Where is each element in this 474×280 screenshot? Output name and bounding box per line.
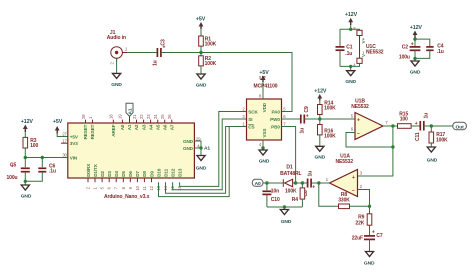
svg-text:A4: A4	[148, 124, 153, 130]
wire detector bottom rail	[267, 206, 303, 208]
wire U1C bottom rail	[340, 63, 360, 66]
ground under J1	[111, 73, 122, 87]
wire U1B feedback pin6	[346, 133, 393, 148]
resistor R3 100	[23, 137, 38, 149]
svg-text:D9: D9	[149, 171, 154, 177]
wire A0 to D1 cathode	[263, 182, 283, 184]
ground under R17	[427, 147, 438, 163]
svg-text:A0: A0	[255, 181, 261, 187]
wire C3 to divider node	[161, 52, 201, 54]
wire C1 top stem	[339, 29, 341, 46]
wire node to C5	[24, 158, 26, 168]
+12V flag left column	[21, 119, 34, 132]
wire C2/C4 bottom rail	[415, 50, 430, 58]
connector J1 audio jack	[107, 30, 128, 65]
flag A1 above Arduino	[126, 103, 133, 123]
svg-text:C2: C2	[402, 44, 409, 50]
wire C10 stem	[266, 183, 268, 190]
svg-text:25: 25	[160, 114, 165, 119]
node divider junction	[199, 51, 202, 54]
+12V flag above U1C	[345, 12, 358, 25]
svg-text:+5V: +5V	[259, 70, 269, 76]
capacitor C11 1u	[415, 113, 430, 141]
node feedback junction	[391, 145, 394, 148]
resistor R17 100K	[429, 132, 448, 144]
wire D1 anode to C8	[293, 182, 307, 184]
svg-text:GND: GND	[315, 155, 326, 161]
wire C7 to ground	[369, 239, 371, 251]
svg-text:100K: 100K	[436, 137, 448, 143]
svg-text:A7: A7	[170, 124, 175, 130]
svg-text:+12V: +12V	[410, 25, 423, 31]
Arduino bottom pin numbers rotated	[86, 185, 183, 190]
resistor R14 100K	[318, 100, 337, 114]
capacitor C5 100u	[7, 163, 30, 182]
svg-text:100K: 100K	[324, 134, 336, 140]
diode D1 BAT48RL	[280, 164, 301, 187]
svg-text:D2: D2	[100, 171, 105, 177]
wire R4 stems	[301, 183, 303, 188]
Arduino right pin numbers	[196, 136, 201, 148]
port Out	[453, 122, 467, 130]
svg-text:−: −	[352, 188, 355, 194]
svg-text:+: +	[415, 121, 418, 127]
capacitor C9 1u	[300, 106, 310, 134]
+12V flag above C2	[410, 25, 423, 38]
svg-text:22uF: 22uF	[352, 235, 363, 241]
wire node to R2	[200, 53, 202, 56]
Arduino top pin stubs	[86, 120, 172, 123]
ground under C2	[410, 61, 421, 75]
wire Arduino GND pin4	[194, 147, 201, 149]
wire D11 to CS	[166, 127, 247, 194]
svg-text:10: 10	[135, 185, 140, 190]
node C6 tap	[41, 156, 44, 159]
wire to ground	[350, 66, 352, 70]
node VIN junction	[24, 156, 27, 159]
node U1C top junction	[349, 28, 352, 31]
svg-text:27: 27	[62, 132, 67, 137]
svg-text:D1/TX: D1/TX	[93, 163, 98, 177]
Arduino left pin numbers	[62, 132, 67, 158]
wire VSS to ground	[262, 140, 264, 150]
svg-text:PB0: PB0	[271, 124, 280, 129]
wire R15 to C11	[411, 125, 420, 127]
svg-text:26: 26	[167, 114, 172, 119]
U2 pin names	[248, 102, 280, 137]
svg-text:1u: 1u	[152, 60, 158, 66]
wire C5/C6 bottom rail	[25, 172, 42, 182]
svg-text:PA0: PA0	[272, 109, 281, 114]
node C10 tap	[265, 181, 268, 184]
svg-text:A2: A2	[134, 124, 139, 130]
svg-text:RESET: RESET	[83, 124, 88, 139]
wire R17 to ground	[430, 143, 432, 147]
svg-text:24: 24	[153, 114, 158, 119]
resistor R8 330K	[338, 192, 350, 208]
capacitor C3 1u	[152, 39, 166, 66]
svg-text:D4: D4	[114, 171, 119, 177]
node U1C bottom junction	[349, 65, 352, 68]
svg-text:GND: GND	[21, 194, 32, 200]
op-amp U1B NE5532	[351, 99, 389, 140]
wire R9 to C7	[369, 225, 371, 235]
node PB0 junction	[294, 181, 297, 184]
node VSS junction	[261, 146, 264, 149]
wire VIN node to Arduino VIN	[25, 157, 68, 159]
port A0	[252, 179, 263, 187]
resistor R4 100K	[285, 188, 305, 203]
svg-text:23: 23	[146, 114, 151, 119]
svg-text:MCP41100: MCP41100	[254, 84, 278, 90]
wire R4 to bottom rail	[301, 199, 303, 207]
Arduino right pin names	[183, 139, 194, 151]
svg-text:C9: C9	[304, 106, 310, 113]
svg-text:1u: 1u	[423, 113, 429, 119]
svg-text:D11: D11	[163, 168, 168, 176]
svg-text:NE5532: NE5532	[351, 104, 369, 110]
wire D10 to CS net	[159, 127, 230, 197]
wire R1 to node	[200, 46, 202, 52]
Arduino pin 17 stub	[61, 142, 68, 144]
svg-text:VSS: VSS	[262, 129, 267, 138]
wire PW0 to C9	[282, 118, 301, 120]
svg-text:SCK: SCK	[248, 109, 258, 114]
svg-text:100K: 100K	[205, 61, 217, 67]
svg-text:1u: 1u	[300, 128, 306, 134]
Arduino Nano U3 body	[68, 123, 195, 178]
svg-text:D10: D10	[156, 168, 161, 177]
svg-text:22: 22	[139, 114, 144, 119]
wire node to R9	[369, 206, 371, 214]
svg-text:A1: A1	[127, 108, 133, 114]
wire to ground arrow	[200, 148, 202, 156]
svg-text:A6: A6	[162, 124, 167, 130]
svg-text:+: +	[372, 229, 375, 235]
wire R16 to ground	[319, 135, 321, 146]
svg-text:+12V: +12V	[21, 119, 34, 125]
digital pot U2 MCP41100 body	[247, 99, 282, 140]
capacitor C10 10n	[262, 189, 280, 203]
wire +12V to R14	[319, 101, 321, 105]
svg-text:3V3: 3V3	[70, 141, 78, 146]
svg-text:GND: GND	[196, 83, 207, 89]
svg-text:D5: D5	[121, 171, 126, 177]
svg-text:R4: R4	[292, 197, 299, 203]
svg-text:17: 17	[62, 138, 67, 143]
svg-text:100K: 100K	[324, 105, 336, 111]
+5V flag above R1	[196, 17, 206, 29]
svg-text:D6: D6	[128, 171, 133, 177]
node R4 tap	[301, 181, 304, 184]
ground under R2	[196, 74, 207, 89]
wire C10 to bottom rail	[266, 194, 268, 207]
svg-text:C1: C1	[346, 44, 353, 50]
wire +12V to C2 node	[414, 38, 416, 40]
svg-text:+12V: +12V	[314, 89, 327, 95]
node R8/R9/pin2 junction	[368, 205, 371, 208]
capacitor C8 1u	[303, 171, 315, 197]
Arduino left pin names	[70, 134, 79, 160]
svg-text:100u: 100u	[7, 175, 18, 181]
wire C2 top stem	[414, 39, 416, 46]
node R17 tap	[430, 124, 433, 127]
wire to ground	[24, 181, 26, 185]
svg-text:VDD: VDD	[262, 102, 267, 112]
svg-text:GND: GND	[183, 146, 194, 151]
wire node to R17	[430, 126, 432, 132]
svg-text:−: −	[357, 131, 360, 137]
svg-text:GND: GND	[427, 157, 438, 163]
svg-text:GND: GND	[111, 82, 122, 88]
wire R3 to VIN node	[24, 148, 26, 158]
node R8 tap	[317, 181, 320, 184]
wire divider node to PA0 (top run)	[201, 53, 292, 112]
wire R8 branch	[319, 183, 339, 206]
wire +12V to R3	[24, 132, 26, 137]
svg-text:D12: D12	[170, 168, 175, 177]
svg-text:A0: A0	[120, 124, 125, 130]
svg-text:.1u: .1u	[345, 51, 352, 57]
resistor R2 100K	[199, 56, 217, 67]
svg-text:+: +	[352, 175, 355, 181]
svg-text:GND: GND	[364, 261, 375, 267]
svg-text:Audio in: Audio in	[107, 35, 126, 41]
svg-text:Out: Out	[456, 125, 465, 131]
svg-text:AREF: AREF	[111, 124, 116, 136]
svg-text:100K: 100K	[205, 41, 217, 47]
svg-text:C5: C5	[10, 163, 17, 169]
resistor R9 22K	[355, 214, 371, 227]
wire D13 to SCK	[180, 112, 247, 187]
svg-text:D0/RX: D0/RX	[86, 163, 91, 177]
svg-text:100: 100	[400, 116, 408, 122]
node detector ground tap	[283, 205, 286, 208]
resistor R15 100	[398, 111, 412, 128]
svg-text:.1u: .1u	[49, 169, 56, 175]
svg-text:+: +	[411, 42, 414, 48]
capacitor C4 .1u	[426, 44, 444, 55]
svg-text:SI: SI	[248, 117, 252, 122]
wire C9 to U1B plus input	[304, 118, 355, 120]
svg-text:+: +	[357, 118, 360, 124]
svg-text:100u: 100u	[399, 54, 410, 60]
svg-text:C10: C10	[271, 197, 280, 203]
+5V flag above U2	[259, 70, 269, 82]
wire +5V to pin 27	[57, 134, 68, 137]
svg-text:GND: GND	[259, 158, 270, 164]
svg-text:18: 18	[109, 114, 114, 119]
svg-text:D8: D8	[142, 171, 147, 177]
svg-text:BAT48RL: BAT48RL	[280, 171, 301, 177]
svg-text:+: +	[163, 45, 166, 51]
svg-text:CS: CS	[248, 124, 254, 129]
svg-text:GND: GND	[196, 166, 207, 172]
svg-text:1u: 1u	[308, 171, 314, 177]
svg-text:30: 30	[62, 153, 67, 158]
resistor R1 100K	[199, 36, 217, 47]
Arduino bottom pin names rotated	[86, 163, 183, 177]
wire output down to U1A	[358, 126, 393, 176]
svg-text:+5V: +5V	[70, 134, 79, 139]
svg-text:GND: GND	[410, 69, 421, 75]
svg-text:A3: A3	[141, 124, 146, 130]
svg-text:NE5532: NE5532	[366, 50, 384, 56]
wire C1 bottom stem	[339, 50, 341, 66]
wire U1B output	[383, 125, 398, 127]
svg-text:GND: GND	[183, 139, 194, 144]
wire J1 to C3	[127, 52, 157, 54]
wire D12 to SI	[173, 119, 247, 190]
capacitor C7 22uF	[352, 229, 383, 241]
wire C6 stem	[41, 158, 43, 168]
ground under U1C	[345, 71, 356, 85]
svg-text:100: 100	[30, 143, 38, 149]
capacitor C6 .1u	[38, 163, 56, 174]
svg-text:GND: GND	[281, 219, 292, 225]
wire node to R16	[319, 119, 321, 125]
svg-text:D13: D13	[178, 168, 183, 177]
svg-text:C11: C11	[415, 132, 421, 141]
svg-text:A5: A5	[155, 124, 160, 130]
svg-text:D1: D1	[286, 164, 293, 170]
svg-text:+5V: +5V	[53, 119, 63, 125]
op-amp U1A NE5532 mirrored	[326, 154, 363, 197]
Arduino top pin numbers rotated	[81, 114, 172, 119]
svg-text:NE5532: NE5532	[336, 159, 354, 165]
ground under C5	[21, 185, 32, 200]
node output junction	[391, 124, 394, 127]
svg-text:.1u: .1u	[437, 49, 444, 55]
svg-text:GND: GND	[345, 79, 356, 85]
svg-text:D3: D3	[107, 171, 112, 177]
svg-text:22K: 22K	[355, 221, 364, 227]
ground under C7	[364, 252, 375, 267]
wire PB0 down to detector rail	[282, 127, 296, 184]
svg-text:C7: C7	[376, 233, 383, 239]
wire R8 to node	[350, 205, 370, 207]
svg-text:10n: 10n	[271, 189, 279, 195]
wire C2/C4 top rail	[415, 39, 430, 46]
Arduino top pin names rotated	[83, 124, 174, 139]
ground under U2	[259, 150, 270, 164]
wire U1A output to C8	[311, 182, 330, 184]
capacitor C1 .1u	[336, 44, 353, 57]
svg-text:+12V: +12V	[345, 12, 358, 18]
svg-text:VIN: VIN	[70, 155, 78, 160]
node C2 bottom junction	[413, 57, 416, 60]
+5V flag at Arduino	[53, 119, 63, 134]
svg-text:330K: 330K	[338, 198, 350, 204]
wire R14 to node	[319, 115, 321, 120]
ground under detector	[280, 210, 292, 225]
svg-text:Arduino_Nano_v3.x: Arduino_Nano_v3.x	[104, 194, 150, 200]
svg-text:28: 28	[81, 114, 86, 119]
capacitor C2 100u	[399, 42, 421, 61]
svg-text:100K: 100K	[285, 189, 297, 195]
wire R2 to ground	[200, 66, 202, 74]
ground under R16	[315, 146, 326, 160]
wire to ground	[414, 58, 416, 61]
power pins U1C NE5532	[353, 26, 384, 67]
node GND pins junction	[199, 146, 202, 149]
wire +5V to VDD	[262, 82, 264, 99]
wire U1C top rail	[340, 29, 360, 30]
svg-text:+5V: +5V	[196, 17, 206, 23]
svg-text:RESET: RESET	[90, 124, 95, 139]
node C5 bottom	[24, 180, 27, 183]
wire J1 pin2 to ground	[116, 58, 118, 73]
svg-text:A1: A1	[204, 145, 210, 151]
svg-text:12: 12	[149, 185, 154, 190]
ground under Arduino right	[196, 156, 207, 172]
svg-text:+: +	[312, 185, 315, 191]
svg-text:PW0: PW0	[270, 117, 280, 122]
svg-text:V+: V+	[361, 38, 366, 44]
svg-text:A1: A1	[127, 124, 132, 130]
resistor R16 100K	[318, 125, 337, 140]
svg-text:19: 19	[118, 114, 123, 119]
node C2 top junction	[413, 37, 416, 40]
wire +12V to rail	[350, 25, 352, 29]
wire to ground	[283, 207, 285, 210]
wire U1A pin2 to feedback node	[358, 190, 370, 207]
wire Arduino GND pin29	[194, 141, 201, 148]
wire +5V to R1	[200, 29, 202, 36]
U2 pin numbers	[242, 94, 286, 147]
+12V flag above R14	[314, 89, 327, 101]
Arduino bottom pin stubs	[88, 178, 152, 182]
svg-text:D7: D7	[135, 171, 140, 177]
node R14/R16 junction	[318, 117, 321, 120]
wire C11 to Out	[424, 125, 453, 127]
